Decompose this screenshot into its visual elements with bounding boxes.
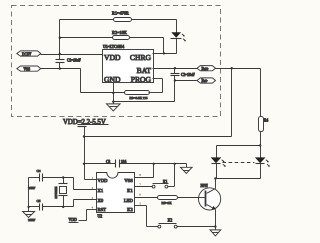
node junction crystal bottom [62,206,64,208]
wire BAT net [153,68,261,70]
node junction R2 rail [59,37,61,39]
wire C3 net gnd side [120,163,187,165]
crystal X1 [54,178,68,207]
capacitor C1 [56,55,81,69]
node junction VSS branch [153,163,155,165]
svg-text:LED: LED [124,198,134,203]
capacitor C5 [28,199,43,222]
wire U1 GND pin [113,83,115,104]
resistor R5 [158,196,178,206]
wire dashed LED link [223,162,255,164]
connector VSS [17,66,41,71]
svg-text:U2: U2 [98,215,103,219]
svg-text:BAT: BAT [137,66,152,75]
wire crystal bottom [29,206,40,208]
wire X1 link [73,178,75,190]
switch K2 [135,206,216,229]
pin numbers U2 [92,173,142,209]
svg-text:R4: R4 [264,119,268,123]
svg-text:Bat-: Bat- [202,79,209,83]
node junction crystal top [62,176,64,178]
wire BAT- net [175,80,197,82]
svg-text:RST: RST [98,207,107,212]
ground G2 [181,164,193,174]
wire X0 link [73,200,75,207]
wire R4 to LED rail [260,132,262,146]
node junction VDD rail [83,135,85,137]
svg-text:4: 4 [92,205,94,209]
wire base [178,197,205,199]
svg-text:Bat+: Bat+ [202,67,209,71]
dashed charger box [12,6,221,117]
wire pin4 RST [79,210,97,221]
svg-text:VSS: VSS [124,178,133,183]
wire pin1 VDD [85,179,97,181]
wire BAT- drop [174,81,176,102]
LED D1 [171,20,187,54]
resistor R3 [125,91,150,100]
svg-text:GND: GND [104,75,121,84]
node junction C3 [83,163,85,165]
svg-text:K2: K2 [127,207,133,212]
capacitor C3 [106,160,126,168]
svg-text:R1=470R: R1=470R [112,10,129,15]
svg-text:DC5V: DC5V [22,52,32,56]
svg-text:CHRG: CHRG [130,53,152,62]
wire R2 drop [163,38,165,54]
connector BAT+ [197,66,216,71]
wire LED cathode rail [216,178,261,180]
svg-text:7: 7 [139,183,141,187]
svg-text:C1=10uF: C1=10uF [67,59,81,63]
wire pin2 X1 [74,189,97,191]
ground G4 [210,227,221,236]
capacitor C4 [28,169,43,190]
wire BAT+ drop [231,69,233,137]
node junction GND-PROG [112,92,114,94]
wire cap left rail [28,178,30,212]
connector BAT- [197,78,216,83]
op-amp U1 charger IC [103,45,154,84]
wire ground link [114,101,175,103]
svg-text:10PF: 10PF [28,186,35,190]
node junction LED rail [259,144,261,146]
node junction CHRG [163,52,165,54]
switch K1 [135,164,175,189]
svg-text:C4: C4 [37,169,41,173]
node junction K1 branch [174,163,176,165]
label VDD net [69,218,79,223]
wire C3 net VDD side [85,163,116,165]
wire R2 net [60,37,113,39]
svg-text:X1: X1 [98,188,104,193]
wire VSS pin8 [153,164,155,178]
wire 5V rail vertical [59,20,61,55]
resistor R1 [112,10,132,21]
svg-text:K2: K2 [168,218,173,222]
wire PROG net [149,92,163,94]
svg-text:5: 5 [139,202,141,206]
wire pin6 LED [135,197,158,199]
resistor R2 [112,30,130,39]
svg-text:32768HZ: 32768HZ [54,187,58,199]
LED D2 [211,146,226,179]
power VDD bar [78,127,87,180]
svg-text:VSS: VSS [24,67,31,71]
svg-text:6: 6 [139,192,141,196]
node junction C2 bottom [174,79,176,81]
svg-text:R5=1K: R5=1K [162,201,173,205]
svg-text:10PF: 10PF [28,218,35,222]
svg-text:X0: X0 [98,198,104,203]
svg-text:K1: K1 [163,180,168,184]
svg-text:R2=10K: R2=10K [112,30,128,35]
node junction C1 top [59,53,61,55]
svg-text:C2=10uF: C2=10uF [181,73,195,77]
svg-text:PROG: PROG [131,75,152,84]
svg-text:VDD: VDD [69,218,77,222]
transistor Q1 [199,184,221,210]
svg-text:R3=0.3K 1%: R3=0.3K 1% [130,96,148,100]
node junction emitter gnd [214,225,216,227]
svg-text:U1=LTC4054: U1=LTC4054 [103,45,124,49]
wire CHRG net [153,53,177,55]
svg-text:VDD: VDD [104,53,121,62]
node junction rail gnd [27,206,29,208]
connector DC5V [17,51,41,57]
wire pin3 X0 [74,199,97,201]
ground G3 [23,212,35,218]
svg-text:NPN: NPN [201,184,209,188]
node junction C1 bottom [59,67,61,69]
svg-text:K1: K1 [127,188,133,193]
capacitor C2 [171,69,195,81]
LED D3 [255,146,270,179]
node junction C2 top [174,67,176,69]
resistor R4 [259,117,269,132]
IC U2 [97,173,135,219]
svg-text:VDD: VDD [98,178,109,183]
wire R4 feed [260,69,262,117]
ground G1 [107,104,121,111]
node junction collector [214,177,216,179]
wire VDD top rail [85,136,232,138]
node junction BAT+ rail [231,67,233,69]
label VDD range [63,119,109,126]
wire 5V input line [41,54,103,56]
wire R1 net [60,19,114,21]
wire LED anode rail [217,145,261,147]
svg-text:C5: C5 [37,199,41,203]
node junction GND rail [112,101,114,103]
wire emitter [215,210,217,227]
wire crystal top [29,177,40,179]
svg-text:C3: C3 [106,160,110,164]
wire collector [215,179,217,189]
svg-text:8: 8 [139,173,141,177]
wire VSS net [41,68,81,70]
